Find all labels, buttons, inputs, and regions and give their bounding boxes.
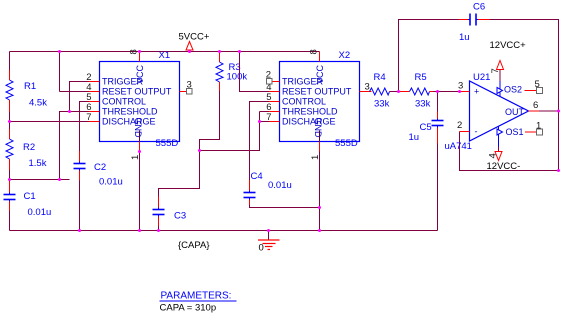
junction C4 wire / X2 gnd riser (318, 206, 321, 209)
wire feedback to inverting input (460, 111, 559, 171)
svg-text:7: 7 (266, 112, 271, 123)
net label CAPA (178, 240, 210, 251)
junction rail / X1 pin4 riser (58, 50, 61, 53)
svg-text:5: 5 (535, 79, 540, 90)
svg-text:DISCHARGE: DISCHARGE (282, 117, 336, 127)
svg-text:C2: C2 (94, 162, 106, 173)
wire R2/C1 node horizontal (10, 179, 70, 181)
power symbol 12VCC- (487, 147, 521, 173)
svg-text:GND: GND (313, 118, 323, 139)
svg-text:R4: R4 (374, 72, 386, 83)
wire X1 pin6 to R2/C1 node (60, 112, 90, 180)
svg-text:C6: C6 (473, 2, 485, 13)
svg-text:33k: 33k (374, 99, 390, 110)
svg-text:1u: 1u (459, 32, 470, 43)
wire X2 pin1 to ground rail (319, 152, 321, 231)
junction C3 / ground rail (157, 229, 160, 232)
svg-text:555D: 555D (335, 138, 358, 149)
pin X2-2 open square (267, 79, 273, 85)
resistor R2 (6, 122, 47, 180)
wire C4 bottom to X2 gnd riser (250, 205, 320, 208)
555 timer X2 (266, 49, 370, 160)
svg-text:C4: C4 (251, 171, 263, 182)
capacitor C5 (409, 92, 444, 144)
svg-text:6: 6 (533, 100, 538, 111)
svg-text:12VCC+: 12VCC+ (490, 40, 527, 51)
wire C1 bottom to ground rail (9, 211, 11, 231)
wire C2 bottom to ground rail (79, 181, 81, 231)
wire X1 pin1 to ground rail (139, 152, 141, 231)
op-amp offset pin OS1 (497, 121, 543, 138)
svg-text:0: 0 (259, 243, 264, 254)
svg-text:12VCC-: 12VCC- (487, 161, 521, 172)
op-amp offset pin OS2 (497, 79, 543, 95)
parameters block (160, 291, 237, 314)
junction X2 pin7 / pin6 riser (258, 120, 261, 123)
capacitor C6 (459, 2, 490, 44)
svg-text:-: - (475, 127, 478, 137)
svg-text:3: 3 (365, 82, 370, 93)
resistor R4 (370, 72, 399, 110)
svg-text:RESET OUTPUT: RESET OUTPUT (282, 87, 352, 97)
junction R3-C3 node / X2 pins6-7 wire (198, 149, 201, 152)
svg-text:CONTROL: CONTROL (282, 97, 326, 107)
capacitor C3 (153, 197, 187, 231)
svg-text:X2: X2 (339, 50, 351, 61)
svg-text:X1: X1 (159, 50, 171, 61)
junction R4/R5/C6 node (397, 90, 400, 93)
svg-text:33k: 33k (415, 99, 431, 110)
svg-text:THRESHOLD: THRESHOLD (282, 107, 338, 117)
svg-text:R5: R5 (415, 72, 427, 83)
svg-text:OS2: OS2 (504, 85, 522, 95)
wire C6 feedback left leg (399, 20, 460, 92)
svg-text:3: 3 (458, 81, 463, 92)
svg-text:7: 7 (86, 112, 91, 123)
power symbol 5VCC+ (179, 32, 210, 52)
svg-text:U21: U21 (473, 72, 490, 83)
junction X1 pin1 / gnd wire (138, 150, 141, 153)
svg-text:C1: C1 (24, 191, 36, 202)
capacitor C1 (4, 180, 52, 219)
wire R3/C3 node to X2 pins 6,7 (200, 112, 260, 151)
wire X2 pin6 stub link (260, 111, 270, 113)
svg-text:1u: 1u (409, 132, 420, 143)
svg-text:CAPA = 310p: CAPA = 310p (160, 303, 217, 314)
junction feedback corner (557, 169, 560, 172)
op-amp U21 (445, 68, 540, 158)
555 timer X1 (86, 49, 192, 160)
svg-text:0.01u: 0.01u (268, 180, 292, 191)
svg-text:100k: 100k (227, 72, 248, 83)
wire X1 pin4 riser to rail (60, 52, 90, 92)
resistor R5 (399, 72, 438, 110)
svg-text:DISCHARGE: DISCHARGE (102, 117, 156, 127)
svg-text:8: 8 (129, 49, 140, 54)
svg-text:RESET OUTPUT: RESET OUTPUT (102, 87, 172, 97)
svg-text:4.5k: 4.5k (29, 98, 47, 109)
wire X1 pin5 to C2 (80, 102, 90, 152)
junction rail / X2 pin4 riser (238, 50, 241, 53)
junction pins2-6 riser / R2-C1 wire (58, 178, 61, 181)
resistor R1 (6, 70, 47, 112)
junction R5/C5 node (436, 90, 439, 93)
wire C5 bottom to ground rail (437, 144, 439, 231)
svg-text:1.5k: 1.5k (29, 158, 47, 169)
resistor R3 (216, 52, 247, 92)
junction rail / X1 VCC pin (138, 50, 141, 53)
svg-text:uA741: uA741 (445, 141, 472, 152)
svg-text:PARAMETERS:: PARAMETERS: (161, 291, 232, 302)
svg-text:0.01u: 0.01u (28, 207, 52, 218)
svg-text:C5: C5 (420, 122, 432, 133)
capacitor C2 (74, 151, 123, 188)
wire X1 pin7 to R1/R2 node (10, 121, 90, 123)
junction wire / op-amp pin3 (458, 90, 461, 93)
ground 0 (258, 231, 280, 254)
wire R5 to op-amp pin3 (438, 91, 460, 93)
wire C6 right leg to output node (490, 20, 559, 112)
svg-text:5VCC+: 5VCC+ (179, 32, 210, 43)
capacitor C4 (244, 171, 292, 205)
svg-text:555D: 555D (156, 138, 179, 149)
svg-text:0.01u: 0.01u (99, 177, 123, 188)
wire R1 bottom to node A (9, 112, 11, 122)
wire op-amp output to node (539, 110, 559, 112)
junction node A R1/R2/X1 pin7 (8, 120, 11, 123)
svg-text:VCC: VCC (135, 64, 145, 84)
junction rail / 5VCC+ symbol (188, 50, 191, 53)
wire X2 pin5 to C4 (250, 102, 270, 181)
junction ground symbol / rail (267, 229, 270, 232)
svg-text:R2: R2 (23, 142, 35, 153)
junction C2 / ground rail (78, 229, 81, 232)
pin X1-3 open square (187, 89, 193, 95)
wire bottom ground rail (10, 230, 438, 232)
wire X2 pin7 stub link (260, 121, 270, 123)
svg-text:8: 8 (309, 49, 320, 54)
wire left column top (rail to R1) (9, 52, 11, 71)
svg-text:R1: R1 (24, 81, 36, 92)
svg-text:2: 2 (457, 120, 462, 131)
junction R2 / C1 (8, 178, 11, 181)
svg-text:OS1: OS1 (506, 127, 524, 137)
svg-text:CONTROL: CONTROL (102, 97, 146, 107)
svg-text:{CAPA}: {CAPA} (178, 240, 210, 251)
junction op-amp output node (557, 110, 560, 113)
wire top VCC rail (10, 51, 320, 53)
svg-text:+: + (474, 87, 479, 97)
svg-text:VCC: VCC (315, 64, 325, 84)
svg-text:THRESHOLD: THRESHOLD (102, 107, 158, 117)
wire X1 pin2 (70, 82, 90, 112)
wire X2 pin4 riser to rail (240, 52, 270, 92)
junction X1 pin2/pin6 (68, 110, 71, 113)
power symbol 12VCC+ (490, 40, 527, 81)
svg-text:OUT: OUT (505, 107, 525, 117)
svg-text:C3: C3 (174, 211, 186, 222)
svg-text:GND: GND (133, 118, 143, 139)
junction X2 gnd / ground rail (318, 229, 321, 232)
junction X1 gnd / ground rail (138, 229, 141, 232)
wire R3 bottom staircase to C3 (159, 91, 220, 197)
junction rail / R3 top (218, 50, 221, 53)
svg-text:1: 1 (536, 121, 541, 132)
